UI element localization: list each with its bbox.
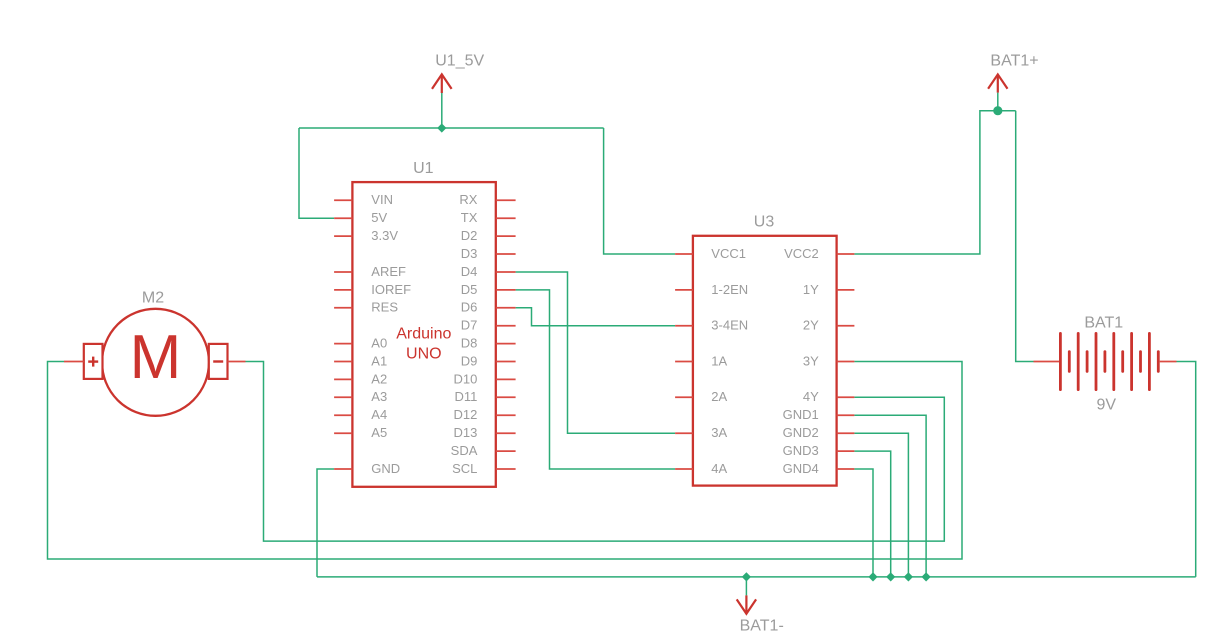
wire U1 D4 to U3 3A — [516, 272, 676, 433]
pin D13 stub — [496, 432, 516, 434]
wire U3 GND3 to rail — [854, 451, 890, 577]
pin 1Y stub — [837, 289, 855, 291]
svg-text:4Y: 4Y — [803, 389, 819, 404]
pin 3.3V stub — [334, 235, 352, 237]
pin GND4 stub — [837, 468, 855, 470]
pin AREF stub — [334, 271, 352, 273]
svg-text:RX: RX — [459, 192, 477, 207]
M2 plus pin stub — [64, 361, 84, 363]
svg-text:BAT1: BAT1 — [1084, 314, 1123, 331]
wire U3 VCC2 to BAT1+ node — [854, 111, 1015, 254]
pin D8 stub — [496, 343, 516, 345]
svg-text:3Y: 3Y — [803, 353, 819, 368]
svg-text:A3: A3 — [371, 389, 387, 404]
pin RES stub — [334, 307, 352, 309]
U1 pin names right — [451, 192, 478, 476]
M2 plus sign — [88, 357, 98, 367]
svg-text:VIN: VIN — [371, 192, 393, 207]
wire ground rail bottom — [317, 576, 1196, 578]
M2 body circle — [102, 309, 209, 416]
wire U1_5V flag tail — [441, 93, 443, 128]
pin D5 stub — [496, 289, 516, 291]
svg-text:GND1: GND1 — [783, 407, 819, 422]
pin A1 stub — [334, 361, 352, 363]
wire U3 GND1 to rail — [854, 415, 926, 577]
pin SDA stub — [496, 450, 516, 452]
pin VCC1 stub — [675, 253, 693, 255]
M2 plus terminal box — [84, 344, 103, 379]
wire U3 4Y to motor minus — [246, 362, 945, 542]
junction ground rail at GND4 drop — [868, 572, 877, 581]
svg-text:9V: 9V — [1097, 396, 1117, 413]
svg-text:U1_5V: U1_5V — [435, 53, 484, 70]
svg-text:A2: A2 — [371, 371, 387, 386]
pin D6 stub — [496, 307, 516, 309]
junction 5V rail at U1_5V flag — [437, 123, 446, 132]
pin D10 stub — [496, 378, 516, 380]
pin SCL stub — [496, 468, 516, 470]
svg-text:Arduino: Arduino — [396, 326, 451, 343]
U1 body — [352, 182, 495, 487]
svg-text:2Y: 2Y — [803, 318, 819, 333]
pin 4Y stub — [837, 396, 855, 398]
U3 pin names left — [711, 246, 748, 476]
svg-text:BAT1-: BAT1- — [740, 618, 784, 635]
svg-text:2A: 2A — [711, 389, 727, 404]
junction ground rail at GND2 drop — [904, 572, 913, 581]
U3 pin stubs left — [675, 254, 693, 469]
svg-text:U3: U3 — [754, 213, 775, 230]
svg-text:D13: D13 — [454, 425, 478, 440]
svg-text:TX: TX — [461, 210, 478, 225]
pin D7 stub — [496, 325, 516, 327]
svg-text:3A: 3A — [711, 425, 727, 440]
pin TX stub — [496, 217, 516, 219]
pin 3Y stub — [837, 361, 855, 363]
pin 4A stub — [675, 468, 693, 470]
svg-text:BAT1+: BAT1+ — [990, 53, 1038, 70]
svg-text:VCC1: VCC1 — [711, 246, 746, 261]
M2 minus sign — [213, 360, 223, 362]
pin GND1 stub — [837, 414, 855, 416]
svg-text:U1: U1 — [413, 160, 434, 177]
power arrow BAT1- — [737, 595, 756, 613]
power arrow BAT1+ — [988, 74, 1007, 92]
pin A0 stub — [334, 343, 352, 345]
wire U1 D6 to U3 3-4EN — [516, 308, 676, 326]
pin D2 stub — [496, 235, 516, 237]
U3 body — [693, 236, 837, 486]
pin D11 stub — [496, 396, 516, 398]
pin D4 stub — [496, 271, 516, 273]
svg-text:5V: 5V — [371, 210, 387, 225]
pin GND stub — [334, 468, 352, 470]
svg-text:D9: D9 — [461, 353, 478, 368]
wire BAT1+ flag tail — [997, 93, 999, 111]
pin D3 stub — [496, 253, 516, 255]
pin A5 stub — [334, 432, 352, 434]
pin 2Y stub — [837, 325, 855, 327]
U3 pin names right — [783, 246, 819, 476]
svg-text:RES: RES — [371, 300, 398, 315]
wire top 5V rail horizontal — [299, 127, 604, 129]
BAT1 positive pin stub — [1034, 361, 1060, 363]
svg-text:D12: D12 — [454, 407, 478, 422]
svg-text:A0: A0 — [371, 336, 387, 351]
M2 minus terminal box — [209, 344, 228, 379]
pin A4 stub — [334, 414, 352, 416]
svg-text:D2: D2 — [461, 228, 478, 243]
svg-text:3.3V: 3.3V — [371, 228, 398, 243]
svg-text:A1: A1 — [371, 353, 387, 368]
BAT1 negative pin stub — [1160, 361, 1177, 363]
pin D9 stub — [496, 361, 516, 363]
pin A3 stub — [334, 396, 352, 398]
svg-text:UNO: UNO — [406, 346, 442, 363]
svg-text:D8: D8 — [461, 336, 478, 351]
pin VIN stub — [334, 199, 352, 201]
svg-text:D4: D4 — [461, 264, 478, 279]
BAT1 cells short plates — [1069, 352, 1158, 372]
wire BAT1- flag tail — [745, 577, 747, 596]
pin 3-4EN stub — [675, 325, 693, 327]
svg-text:IOREF: IOREF — [371, 282, 411, 297]
wire BAT1+ node down to battery positive — [1016, 111, 1034, 362]
junction dot BAT1+ node — [993, 106, 1002, 115]
svg-text:D11: D11 — [455, 389, 478, 404]
svg-text:D7: D7 — [461, 318, 478, 333]
svg-text:SCL: SCL — [452, 461, 477, 476]
pin RX stub — [496, 199, 516, 201]
svg-text:A4: A4 — [371, 407, 387, 422]
pin 2A stub — [675, 396, 693, 398]
svg-text:1-2EN: 1-2EN — [711, 282, 748, 297]
wire U3 3Y to motor plus — [48, 362, 963, 560]
junction ground rail at GND3 drop — [886, 572, 895, 581]
junction ground rail at GND1 drop — [922, 572, 931, 581]
pin 1-2EN stub — [675, 289, 693, 291]
svg-text:D10: D10 — [454, 371, 478, 386]
U3 pin stubs right — [837, 254, 855, 469]
svg-text:M2: M2 — [142, 289, 164, 306]
U1 pin stubs right — [496, 200, 516, 469]
pin 5V stub — [334, 217, 352, 219]
wire U3 GND2 to rail — [854, 433, 908, 577]
svg-text:GND2: GND2 — [783, 425, 819, 440]
pin 3A stub — [675, 432, 693, 434]
svg-text:1Y: 1Y — [803, 282, 819, 297]
pin VCC2 stub — [837, 253, 855, 255]
pin GND2 stub — [837, 432, 855, 434]
svg-text:D3: D3 — [461, 246, 478, 261]
svg-text:VCC2: VCC2 — [784, 246, 819, 261]
svg-text:4A: 4A — [711, 461, 727, 476]
wire 5V rail left drop to U1 5V pin — [299, 128, 334, 218]
pin A2 stub — [334, 378, 352, 380]
wire U1 D5 to U3 4A — [516, 290, 676, 469]
svg-text:AREF: AREF — [371, 264, 406, 279]
svg-text:M: M — [130, 323, 182, 392]
pin D12 stub — [496, 414, 516, 416]
U1 pin stubs left — [334, 200, 352, 469]
pin 1A stub — [675, 361, 693, 363]
svg-text:1A: 1A — [711, 353, 727, 368]
pin GND3 stub — [837, 450, 855, 452]
pin IOREF stub — [334, 289, 352, 291]
power arrow U1_5V — [432, 74, 452, 93]
wire 5V rail right drop to U3 VCC1 — [604, 128, 676, 254]
svg-text:3-4EN: 3-4EN — [711, 318, 748, 333]
svg-text:SDA: SDA — [451, 443, 478, 458]
svg-text:D6: D6 — [461, 300, 478, 315]
junction ground rail at BAT1- flag — [742, 572, 751, 581]
wire battery negative to ground rail — [1177, 362, 1196, 577]
svg-text:A5: A5 — [371, 425, 387, 440]
M2 minus pin stub — [228, 361, 246, 363]
svg-text:GND3: GND3 — [783, 443, 819, 458]
BAT1 cells long plates — [1060, 333, 1149, 389]
wire U3 GND4 to rail — [854, 469, 873, 577]
U1 pin names left — [371, 192, 411, 476]
wire U1 GND down to ground rail — [317, 469, 334, 577]
svg-text:D5: D5 — [461, 282, 478, 297]
svg-text:GND4: GND4 — [783, 461, 819, 476]
svg-text:GND: GND — [371, 461, 400, 476]
